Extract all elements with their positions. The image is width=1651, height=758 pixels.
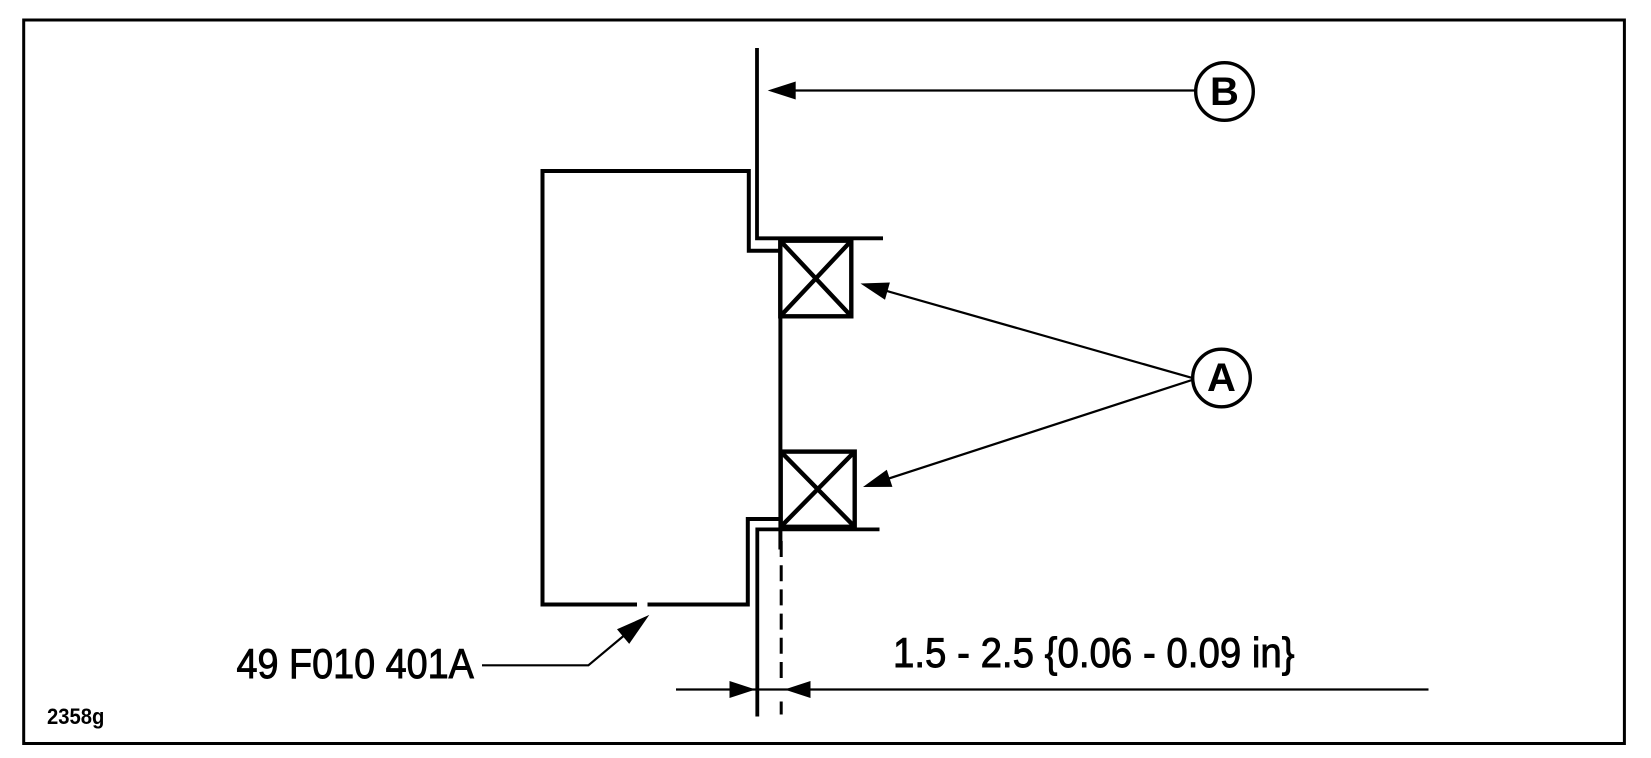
hub housing 49 F010 401A : top edge, right upper edge, upper step (543, 171, 781, 251)
dimension arrowhead left-pointing at seal depth line (785, 681, 811, 698)
shaft flange B lower outline (757, 529, 879, 716)
leader line from part number (482, 618, 645, 665)
svg-text:2358g: 2358g (47, 704, 104, 729)
svg-text:49 F010 401A: 49 F010 401A (237, 641, 475, 687)
leader line to top seal box (884, 290, 1194, 378)
bottom seal box A (781, 452, 855, 527)
leader line to B (794, 89, 1196, 91)
svg-text:B: B (1210, 70, 1239, 114)
svg-text:1.5 - 2.5 {0.06 - 0.09 in}: 1.5 - 2.5 {0.06 - 0.09 in} (893, 629, 1295, 676)
arrowhead to bottom seal box (863, 470, 892, 487)
dashed seal seating depth line upper part (780, 541, 783, 678)
arrowhead to shaft B (768, 82, 796, 100)
dashed seal seating depth line lower dash (780, 702, 783, 715)
hub housing 49 F010 401A : left edge, bottom edge (with gap at leader arrow), lower right edge, lower step (543, 169, 638, 605)
svg-text:A: A (1207, 356, 1236, 400)
balloon circle B (1196, 63, 1254, 121)
top seal box A (780, 241, 851, 317)
arrowhead to hub bottom edge (617, 615, 649, 644)
hub bore line (778, 239, 782, 550)
leader line to bottom seal box (886, 380, 1194, 480)
arrowhead to top seal box (861, 283, 890, 300)
dimension arrowhead right-pointing at shaft surface (730, 681, 756, 698)
shaft flange B upper outline (757, 48, 883, 238)
balloon circle A (1193, 349, 1251, 407)
dimension line (676, 688, 1429, 690)
